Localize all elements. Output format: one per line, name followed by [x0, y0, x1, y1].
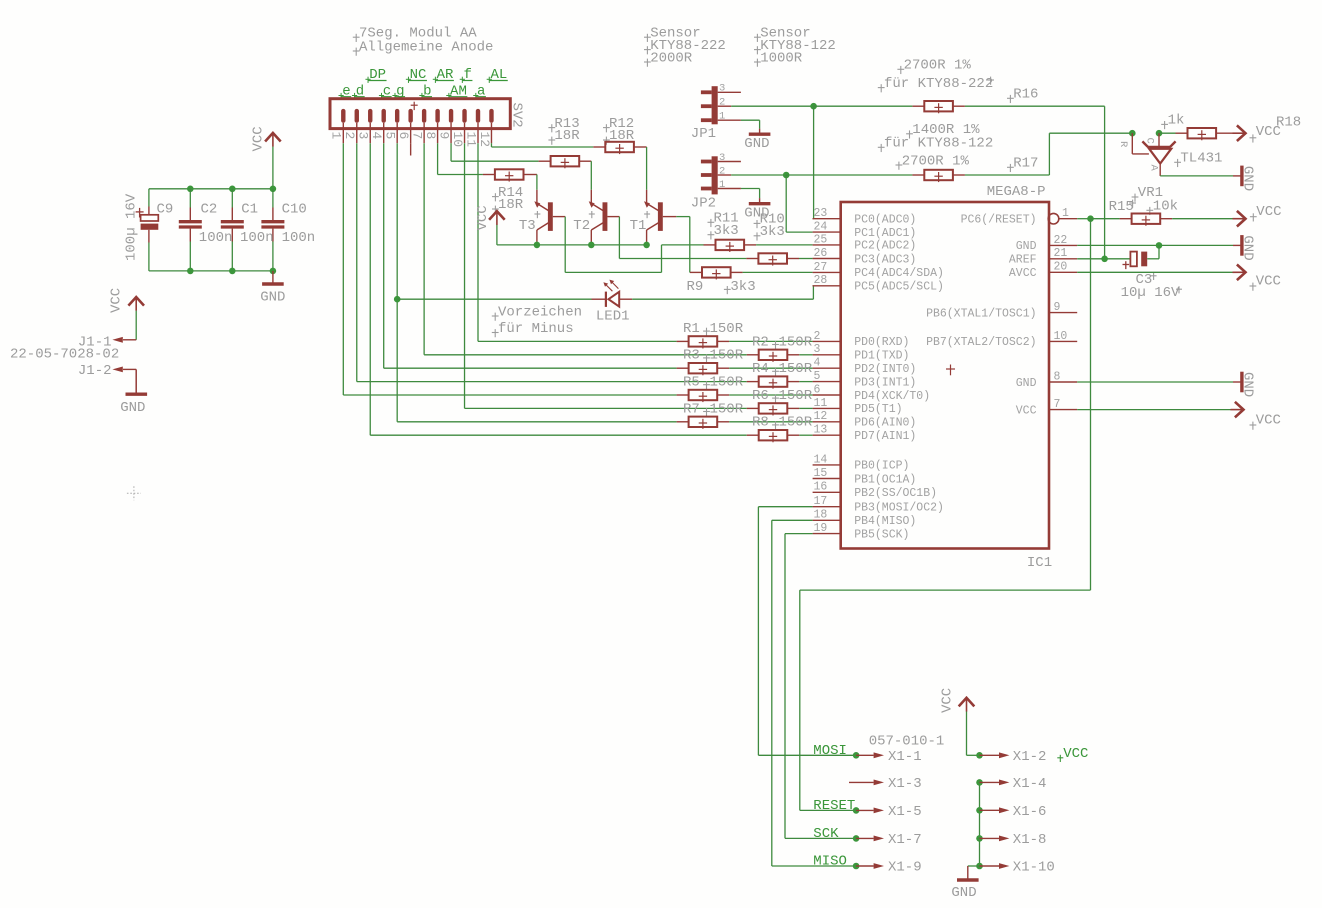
power flag VCC (J1): [128, 297, 144, 306]
wire LED1 to IC pin28: [632, 298, 813, 300]
pin contact SV2-5: [395, 109, 399, 123]
wire segment to R2: [424, 354, 747, 356]
svg-text:GND: GND: [1016, 240, 1037, 253]
svg-text:GND: GND: [120, 400, 145, 416]
origin cross SV2: [411, 104, 418, 106]
svg-text:GND: GND: [1239, 166, 1255, 191]
svg-text:für KTY88-222: für KTY88-222: [884, 76, 993, 92]
polarity + of C3: [1123, 264, 1130, 266]
svg-text:C10: C10: [282, 201, 307, 217]
svg-text:16: 16: [814, 481, 828, 494]
wire R14 to T3 emitter: [536, 175, 538, 190]
svg-text:X1-7: X1-7: [888, 832, 922, 848]
wire SV2-8 to R14: [437, 143, 439, 174]
connector SV2 body: [330, 99, 510, 129]
wire R17 to TL431 net: [965, 174, 1050, 176]
resistor R11: [704, 244, 716, 246]
wire collector rail: [497, 244, 647, 246]
wire MISO pin18: [772, 519, 813, 521]
pin 22 stub: [1049, 244, 1077, 246]
svg-text:5: 5: [383, 132, 398, 140]
svg-text:11: 11: [463, 132, 478, 148]
svg-text:A: A: [1148, 165, 1160, 172]
svg-text:PD6(AIN0): PD6(AIN0): [854, 417, 916, 430]
pin X1-4: [980, 781, 1000, 783]
resistor R12: [593, 146, 605, 148]
svg-text:3k3: 3k3: [730, 279, 755, 295]
svg-text:10: 10: [450, 132, 465, 148]
pin 1 stub with inversion bubble: [1048, 213, 1059, 224]
pin 3 stub: [813, 354, 841, 356]
pin 23 stub: [813, 218, 841, 220]
pin stub SV2-12: [490, 123, 492, 143]
svg-text:4: 4: [369, 132, 384, 140]
label 1400R 1% (R17): [906, 133, 913, 135]
wire SV2-3 down: [369, 143, 371, 435]
svg-text:X1-3: X1-3: [888, 776, 922, 792]
wire pin1 to reset node: [1077, 218, 1090, 220]
svg-text:R2: R2: [752, 334, 769, 350]
wire R1 to IC: [729, 340, 812, 342]
svg-text:VCC: VCC: [475, 205, 491, 230]
svg-text:5: 5: [814, 370, 821, 383]
label Sensor KTY88-122: [754, 36, 761, 38]
pin contact SV2-2: [355, 109, 359, 123]
node X1-4: [976, 779, 983, 786]
svg-text:X1-2: X1-2: [1013, 749, 1047, 765]
svg-text:AREF: AREF: [1009, 254, 1037, 267]
svg-text:R8: R8: [752, 415, 769, 431]
svg-text:RESET: RESET: [813, 798, 855, 814]
pin stub SV2-5: [396, 123, 398, 143]
svg-text:25: 25: [814, 233, 828, 246]
pin X1-8: [980, 837, 1000, 839]
svg-text:2: 2: [719, 97, 725, 109]
svg-text:GND: GND: [1239, 235, 1255, 260]
pin SV2-6 n.c. end: [410, 143, 412, 155]
wire JP1 node to R16: [814, 105, 913, 107]
value R10 3k3: [754, 235, 761, 237]
wire C9 top: [148, 189, 150, 207]
svg-text:15: 15: [814, 467, 828, 480]
wire segment to R1: [478, 340, 677, 342]
wire RESET to ISP: [1090, 219, 1092, 590]
wire SV2-7 down: [423, 143, 425, 355]
wire R11 to IC pin25: [756, 244, 813, 246]
pin 18 stub: [813, 519, 841, 521]
svg-text:6: 6: [396, 132, 411, 140]
wire top rail: [149, 188, 273, 190]
resistor R17: [912, 174, 924, 176]
wire VCC to J1-1: [135, 311, 137, 340]
svg-text:PB4(MISO): PB4(MISO): [854, 515, 916, 528]
ground symbol (JP2): [759, 198, 761, 203]
svg-text:24: 24: [814, 221, 828, 234]
wire VCC to X1-2: [966, 712, 968, 756]
ground symbol (X1): [957, 878, 979, 881]
wire C2 top: [189, 189, 191, 208]
svg-text:150R: 150R: [779, 415, 813, 431]
wire segment to R4: [357, 381, 747, 383]
wire SCK pin19: [785, 533, 813, 535]
svg-text:10: 10: [1054, 330, 1068, 343]
label R12: [603, 127, 610, 129]
value R13 18R: [548, 139, 555, 141]
wire C10 bottom: [272, 242, 274, 271]
svg-text:7: 7: [410, 132, 425, 140]
pin X1-1: [856, 754, 874, 756]
wire C9 bottom: [148, 243, 150, 271]
svg-text:18R: 18R: [498, 197, 524, 213]
wire node to 1k: [1159, 132, 1176, 134]
pin 13 stub: [813, 434, 841, 436]
pin 28 stub: [813, 285, 841, 287]
svg-text:PB3(MOSI/OC2): PB3(MOSI/OC2): [854, 502, 944, 515]
resistor R5: [677, 394, 689, 396]
node bottom rail / C2: [187, 268, 194, 275]
svg-text:PC2(ADC2): PC2(ADC2): [854, 240, 916, 253]
label fuer Minus: [492, 332, 499, 334]
node T3 collector: [534, 242, 541, 249]
connector JP2: [712, 156, 718, 194]
wire T2 base: [607, 216, 619, 218]
pin contact SV2-9: [449, 109, 453, 123]
svg-text:JP2: JP2: [691, 196, 716, 212]
pin C1 bottom: [231, 229, 233, 242]
pin 25 stub: [813, 244, 841, 246]
diode VR1 TL431 triangle: [1149, 149, 1171, 164]
svg-text:R17: R17: [1013, 156, 1038, 172]
label R16: [1007, 97, 1014, 99]
wire segment to R8: [370, 434, 746, 436]
pin JP2-1: [718, 188, 741, 190]
wire R2 to IC: [799, 354, 812, 356]
pin X1-3: [849, 781, 874, 783]
pin C10 bottom: [272, 229, 274, 242]
pin 17 stub: [813, 506, 841, 508]
pin J1-2: [123, 368, 136, 370]
node top rail / C2: [187, 186, 194, 193]
net label VCC (green): [1057, 757, 1063, 759]
pin contact SV2-7: [422, 109, 426, 123]
pin C1 top: [231, 208, 233, 221]
wire R4 to IC: [799, 381, 812, 383]
svg-text:Allgemeine Anode: Allgemeine Anode: [359, 39, 493, 55]
svg-text:18: 18: [814, 509, 828, 522]
label VR1: [1132, 196, 1139, 198]
pin 16 stub: [813, 491, 841, 493]
pin contact SV2-10: [462, 109, 466, 123]
pin 10 stub: [1049, 340, 1077, 342]
svg-text:4: 4: [814, 357, 821, 370]
pin stub SV2-3: [369, 123, 371, 143]
resistor R9: [690, 271, 702, 273]
wire R8 to IC: [799, 434, 812, 436]
svg-text:GND: GND: [1016, 377, 1037, 390]
svg-text:PC6(/RESET): PC6(/RESET): [961, 214, 1037, 227]
capacitor C2: [179, 220, 202, 223]
svg-text:VCC: VCC: [1256, 204, 1281, 220]
node top rail / C1: [229, 186, 236, 193]
svg-text:MOSI: MOSI: [813, 743, 847, 759]
svg-text:10k: 10k: [1153, 199, 1178, 215]
wire JP1-1 to GND: [741, 119, 760, 121]
svg-text:PC0(ADC0): PC0(ADC0): [854, 214, 916, 227]
wire VCC to top rail: [272, 147, 274, 189]
svg-text:R6: R6: [752, 388, 769, 404]
svg-text:057-010-1: 057-010-1: [869, 733, 945, 749]
wire C2 bottom: [189, 242, 191, 271]
pin 4 stub: [813, 367, 841, 369]
label VCC (pin7): [1250, 424, 1257, 426]
svg-text:17: 17: [814, 495, 828, 508]
resistor R1: [677, 340, 689, 342]
svg-text:19: 19: [814, 522, 828, 535]
LED1 emission arrows: [606, 285, 612, 291]
svg-text:150R: 150R: [779, 388, 813, 404]
label 10k: [1146, 209, 1153, 211]
svg-text:AVCC: AVCC: [1009, 267, 1037, 280]
svg-text:3: 3: [814, 343, 821, 356]
resistor R4: [747, 381, 759, 383]
svg-text:150R: 150R: [710, 321, 744, 337]
svg-text:R: R: [1117, 141, 1129, 148]
pin stub SV2-8: [437, 123, 439, 143]
svg-text:26: 26: [814, 247, 828, 260]
svg-text:X1-9: X1-9: [888, 860, 922, 876]
svg-text:GND: GND: [260, 290, 285, 306]
wire pin20 AVCC to VCC: [1077, 271, 1233, 273]
svg-text:VCC: VCC: [1016, 404, 1037, 417]
ground symbol (pin8): [1240, 372, 1243, 393]
pin 27 stub: [813, 271, 841, 273]
connector JP1: [712, 86, 718, 124]
svg-text:R5: R5: [683, 375, 700, 391]
wire SV2-12 to R12: [490, 143, 492, 147]
svg-text:PD4(XCK/T0): PD4(XCK/T0): [854, 390, 930, 403]
node X1-9: [853, 863, 860, 870]
wire R16 to AREF node: [965, 105, 1105, 107]
wire C10 top: [272, 189, 274, 208]
power arrow VCC (RESET): [1237, 211, 1246, 227]
svg-text:GND: GND: [1239, 372, 1255, 397]
wire T2 collector to rail: [590, 242, 592, 245]
svg-text:VCC: VCC: [1063, 746, 1088, 762]
svg-text:R16: R16: [1013, 87, 1038, 103]
transistor Q1 TL431 reference wire: [1131, 133, 1133, 154]
svg-text:für KTY88-122: für KTY88-122: [884, 136, 993, 152]
pin 8 stub: [1049, 381, 1077, 383]
label Sensor KTY88-222: [644, 36, 651, 38]
label 1k: [1161, 123, 1168, 125]
wire SV2-4 down: [383, 143, 385, 368]
resistor R2: [747, 354, 759, 356]
resistor R16: [912, 105, 924, 107]
pin 11 stub: [813, 407, 841, 409]
svg-text:2700R 1%: 2700R 1%: [902, 153, 970, 169]
wire R10 to IC pin26: [799, 258, 813, 260]
svg-text:150R: 150R: [779, 334, 813, 350]
pin 9 stub: [1049, 312, 1077, 314]
node bottom rail / C1: [229, 268, 236, 275]
svg-text:PC4(ADC4/SDA): PC4(ADC4/SDA): [854, 267, 944, 280]
svg-text:3k3: 3k3: [714, 223, 739, 239]
capacitor C9: [141, 215, 159, 221]
wire SV2-10 down: [464, 143, 466, 408]
svg-text:PB1(OC1A): PB1(OC1A): [854, 473, 916, 486]
svg-text:Vorzeichen: Vorzeichen: [498, 304, 582, 320]
svg-text:11: 11: [814, 397, 828, 410]
pin stub SV2-9: [450, 123, 452, 143]
svg-text:13: 13: [814, 424, 828, 437]
node X1-6: [976, 807, 983, 814]
pin contact SV2-12: [489, 109, 493, 123]
power arrow VCC (AVCC): [1237, 265, 1246, 281]
wire JP2 node to R17: [786, 174, 912, 176]
svg-text:R7: R7: [683, 401, 700, 417]
svg-text:PD0(RXD): PD0(RXD): [854, 336, 909, 349]
ground symbol (J1): [135, 369, 137, 394]
resistor R7: [677, 421, 689, 423]
node X1-10: [976, 863, 983, 870]
label 2700R 1% (R17): [896, 164, 903, 166]
label 2700R 1% (R16): [897, 68, 904, 70]
pin C9 top: [148, 207, 150, 215]
svg-text:6: 6: [814, 383, 821, 396]
wire R13 to T2 emitter: [590, 161, 592, 190]
wire segment to R7: [397, 421, 676, 423]
wire segment to R6: [465, 407, 747, 409]
svg-text:TL431: TL431: [1180, 151, 1222, 167]
LED LED1: [592, 298, 606, 300]
wire SV2-9 to R13: [450, 143, 452, 161]
svg-text:R4: R4: [752, 361, 769, 377]
svg-text:150R: 150R: [779, 361, 813, 377]
svg-text:1: 1: [719, 179, 725, 191]
pin X1-6: [980, 809, 1000, 811]
svg-text:X1-1: X1-1: [888, 749, 922, 765]
wire SV2-5 down: [396, 143, 398, 422]
svg-text:8: 8: [423, 132, 438, 140]
pin C2 bottom: [189, 229, 191, 242]
svg-text:100µ 16V: 100µ 16V: [124, 193, 140, 261]
svg-text:2: 2: [342, 132, 357, 140]
label R14: [492, 196, 499, 198]
svg-text:7: 7: [1054, 398, 1061, 411]
svg-text:IC1: IC1: [1027, 555, 1052, 571]
node bottom rail / C10: [270, 268, 277, 275]
svg-text:VCC: VCC: [1256, 124, 1281, 140]
wire X1-10 to GND: [968, 865, 980, 867]
svg-text:R3: R3: [683, 348, 700, 364]
wire T3 collector to rail: [536, 242, 538, 245]
svg-text:MISO: MISO: [813, 854, 847, 870]
node C3 top: [1156, 242, 1163, 249]
svg-text:PD1(TXD): PD1(TXD): [854, 350, 909, 363]
svg-text:3k3: 3k3: [760, 224, 785, 240]
node top rail / C10: [270, 186, 277, 193]
pin JP1-2: [718, 105, 732, 107]
svg-text:T2: T2: [573, 218, 590, 234]
svg-text:150R: 150R: [710, 348, 744, 364]
wire R9 to IC pin27: [743, 271, 813, 273]
svg-text:21: 21: [1054, 247, 1068, 260]
wire bottom rail: [149, 270, 273, 272]
pin 2 stub: [813, 340, 841, 342]
svg-text:1: 1: [329, 132, 344, 140]
wire R5 to IC: [729, 394, 812, 396]
pin X1-2: [980, 754, 1000, 756]
svg-text:R15: R15: [1109, 199, 1134, 215]
svg-text:J1-2: J1-2: [78, 363, 112, 379]
wire JP2-1 to GND: [741, 188, 760, 190]
svg-text:22-05-7028-02: 22-05-7028-02: [10, 347, 119, 363]
pin X1-5: [856, 809, 874, 811]
svg-text:1: 1: [719, 111, 725, 123]
svg-text:PB2(SS/OC1B): PB2(SS/OC1B): [854, 487, 937, 500]
wire C3 to GND net: [1147, 258, 1159, 260]
wire R12 to T1 emitter: [646, 147, 648, 190]
node TL431 cathode: [1156, 130, 1163, 137]
svg-text:PC3(ADC3): PC3(ADC3): [854, 253, 916, 266]
resistor R8: [747, 434, 759, 436]
node JP2-2 / ADC1: [783, 172, 790, 179]
wire pin22 to GND: [1077, 244, 1233, 246]
pin X1-7: [856, 837, 874, 839]
svg-text:PD3(INT1): PD3(INT1): [854, 376, 916, 389]
wire R3 to IC: [729, 367, 812, 369]
svg-text:28: 28: [814, 274, 828, 287]
pin contact SV2-4: [382, 109, 386, 123]
value R12 18R: [603, 139, 610, 141]
ground symbol (TL431): [1240, 166, 1243, 187]
resistor R15: [1091, 218, 1120, 220]
pin C9 bottom: [148, 230, 150, 243]
power flag VCC (transistors): [489, 211, 505, 220]
wire SV2-11 down: [477, 143, 479, 341]
wire T1 base: [663, 216, 677, 218]
pin 12 stub: [813, 421, 841, 423]
label 7Seg. Modul AA: [353, 36, 360, 38]
pin stub SV2-10: [464, 123, 466, 143]
wire pin7 to VCC: [1077, 409, 1231, 411]
svg-text:12: 12: [477, 132, 492, 148]
svg-text:PD2(INT0): PD2(INT0): [854, 363, 916, 376]
svg-text:JP1: JP1: [691, 126, 716, 142]
capacitor C1: [221, 220, 244, 223]
label VCC (RESET): [1250, 216, 1257, 218]
wire T3 base: [553, 216, 565, 218]
svg-text:1: 1: [1062, 207, 1069, 220]
svg-text:PD5(T1): PD5(T1): [854, 403, 902, 416]
pin JP2-2: [718, 174, 732, 176]
capacitor C10: [261, 220, 284, 223]
svg-text:3: 3: [719, 83, 725, 95]
node T1 collector: [643, 242, 650, 249]
svg-text:9: 9: [1054, 301, 1061, 314]
pin contact SV2-8: [435, 109, 439, 123]
wire JP2-2 to R17 net: [731, 174, 786, 176]
resistor R13: [539, 160, 551, 162]
wire R15 to VCC: [1172, 218, 1233, 220]
pin contact SV2-3: [368, 109, 372, 123]
svg-text:PD7(AIN1): PD7(AIN1): [854, 430, 916, 443]
svg-text:X1-8: X1-8: [1013, 832, 1047, 848]
svg-text:VCC: VCC: [1256, 412, 1281, 428]
capacitor C3: [1130, 252, 1137, 267]
wire pin21 AREF: [1077, 258, 1130, 260]
svg-text:2000R: 2000R: [650, 50, 693, 66]
